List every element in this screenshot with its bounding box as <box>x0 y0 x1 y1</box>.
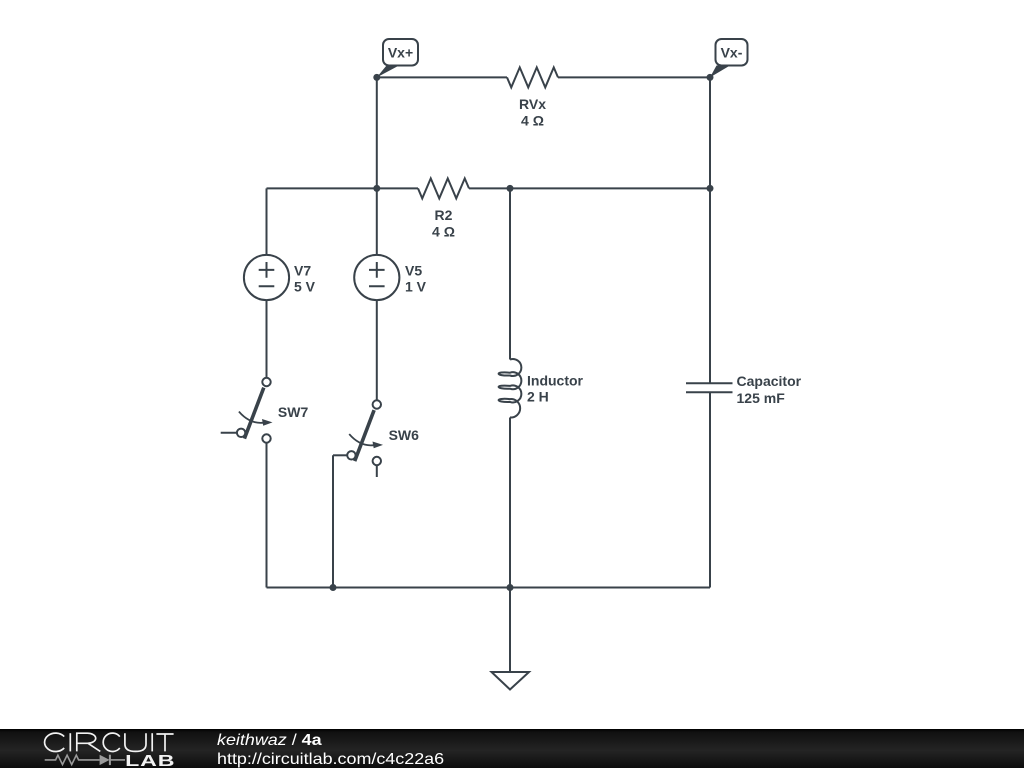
svg-text:5 V: 5 V <box>294 279 316 295</box>
SW6 bottom terminal <box>373 457 381 465</box>
inductor (Inductor 2 H) <box>499 359 522 417</box>
junction dot at Vx- <box>707 74 714 81</box>
logo I <box>151 733 153 751</box>
junction dot mid wire / V5 column <box>373 185 380 192</box>
switch SW6 <box>347 400 383 477</box>
wire right rail: Vx- down to mid wire <box>709 77 711 188</box>
voltage source V7 <box>244 255 289 300</box>
junction dot mid wire / inductor <box>507 185 514 192</box>
svg-text:SW6: SW6 <box>389 427 420 443</box>
logo resistor-diode glyph <box>45 755 125 764</box>
wire SW6 left throw to left <box>333 454 347 456</box>
wire SW6 branch down to bottom rail <box>332 455 334 587</box>
wire mid wire down to inductor <box>509 188 511 359</box>
SW7 left stub wire <box>221 432 237 434</box>
wire V5 bottom to SW6 <box>376 300 378 400</box>
SW7 lever <box>244 388 263 439</box>
resistor RVx <box>507 67 558 87</box>
svg-text:V7: V7 <box>294 262 311 278</box>
svg-text:V5: V5 <box>405 262 422 278</box>
footer url <box>217 751 444 768</box>
svg-text:Capacitor: Capacitor <box>737 373 802 389</box>
SW6 top terminal <box>373 400 381 408</box>
logo I <box>69 733 71 751</box>
logo C <box>45 733 65 751</box>
wire top right: RVx to node Vx- <box>558 76 710 78</box>
capacitor C plates <box>686 383 733 392</box>
logo U <box>125 733 146 751</box>
wire node Vx+ down to mid wire <box>376 77 378 188</box>
node flag Vx+ <box>377 39 418 77</box>
wire top left: node Vx+ to RVx <box>377 76 507 78</box>
wire mid wire down to V5 <box>376 188 378 255</box>
wire inductor bottom to bottom rail <box>509 418 511 588</box>
svg-text:4 Ω: 4 Ω <box>521 113 544 129</box>
CircuitLab logo <box>40 729 240 768</box>
ground symbol <box>492 672 530 690</box>
svg-text:125 mF: 125 mF <box>737 390 786 406</box>
junction dot mid wire / right rail <box>707 185 714 192</box>
node flag Vx- <box>710 39 748 77</box>
footer title keithwaz / 4a <box>217 732 322 750</box>
logo C <box>103 733 120 751</box>
SW6 bottom stub wire <box>376 465 378 477</box>
svg-text:Vx-: Vx- <box>721 45 743 61</box>
SW7 bottom terminal <box>262 434 270 442</box>
svg-text:2 H: 2 H <box>527 388 549 404</box>
voltage source V5 <box>354 255 399 300</box>
wire left rail: mid wire down to V7 <box>266 188 268 255</box>
svg-text:1 V: 1 V <box>405 279 427 295</box>
SW7 top terminal <box>262 378 270 386</box>
SW6 lever <box>355 410 374 461</box>
logo T <box>156 734 173 751</box>
wire ground stub <box>509 588 511 673</box>
logo R <box>77 733 101 751</box>
svg-text:SW7: SW7 <box>278 404 309 420</box>
footer bar <box>0 729 1024 768</box>
SW7 actuation arc <box>239 412 264 423</box>
SW7 left throw terminal <box>237 429 245 437</box>
svg-text:LAB: LAB <box>125 752 175 768</box>
svg-text:RVx: RVx <box>519 96 546 112</box>
svg-text:4 Ω: 4 Ω <box>432 224 455 240</box>
resistor R2 <box>418 178 469 198</box>
junction dot bottom rail / ground <box>507 584 514 591</box>
SW6 actuation arc <box>349 434 374 445</box>
wire mid right: R2 to right rail <box>469 187 710 189</box>
wire right rail: mid wire down to capacitor <box>709 188 711 383</box>
wire V7 bottom to SW7 <box>266 300 268 378</box>
switch SW7 <box>221 378 273 443</box>
junction dot bottom rail / SW6 branch <box>330 584 337 591</box>
svg-text:Inductor: Inductor <box>527 373 584 389</box>
svg-text:R2: R2 <box>435 207 453 223</box>
junction dot at Vx+ <box>373 74 380 81</box>
wire mid left: corner to R2 <box>267 187 419 189</box>
wire below capacitor to bottom rail <box>709 392 711 587</box>
svg-text:Vx+: Vx+ <box>388 45 413 61</box>
wire bottom rail <box>267 587 711 589</box>
SW6 left throw terminal <box>347 451 355 459</box>
wire SW7 bottom to bottom rail <box>266 443 268 588</box>
